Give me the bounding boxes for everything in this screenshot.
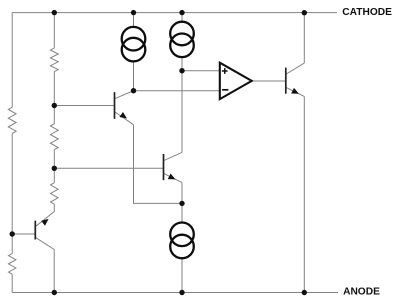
node non-inverting input junction bbox=[179, 68, 184, 73]
transistor Q1 emitter arrow bbox=[41, 219, 48, 226]
svg-text:ANODE: ANODE bbox=[343, 287, 380, 298]
wire current source I3 top stub bbox=[181, 203, 183, 222]
wire current source I2 top stub bbox=[181, 13, 183, 22]
wire left column upper bbox=[11, 13, 13, 108]
node top rail x304 bbox=[302, 10, 307, 15]
wire x54 column mid1 bbox=[53, 72, 55, 124]
transistor Q4 collector diagonal bbox=[286, 63, 304, 74]
node Q2 base junction bbox=[52, 103, 57, 108]
node top rail x133 bbox=[131, 10, 136, 15]
current source I3 bbox=[170, 223, 194, 247]
wire Q4 collector to top rail bbox=[303, 13, 305, 63]
node bottom rail x182 bbox=[179, 290, 184, 295]
wire x54 to Q1 emitter bbox=[53, 204, 55, 211]
wire x54 column mid2 bbox=[53, 150, 55, 183]
wire top rail (cathode bus) bbox=[12, 12, 337, 14]
transistor Q4 emitter diagonal bbox=[286, 88, 304, 97]
wire Q2 emitter run bbox=[134, 125, 183, 204]
current source I2 bbox=[170, 22, 194, 46]
resistor R1 bbox=[8, 107, 16, 133]
transistor Q3 base bar bbox=[163, 154, 165, 180]
wire left column lower bbox=[11, 274, 13, 292]
node bottom rail x54 bbox=[52, 290, 57, 295]
wire current source I2 bottom to node bbox=[181, 57, 183, 71]
transistor Q2 emitter diagonal bbox=[115, 112, 134, 125]
resistor R3 bbox=[50, 124, 58, 150]
transistor Q1 collector diagonal bbox=[36, 238, 54, 250]
transistor Q1 base bar bbox=[34, 221, 36, 240]
wire node to Q3 collector bbox=[181, 71, 183, 153]
wire x54 column top bbox=[53, 13, 55, 49]
op-amp U1 bbox=[220, 63, 252, 99]
wire Q3 base bbox=[54, 167, 163, 169]
wire current source I3 bottom stub bbox=[181, 258, 183, 292]
node bottom rail x304 bbox=[302, 290, 307, 295]
wire current source I1 bottom to node bbox=[133, 61, 135, 90]
svg-text:CATHODE: CATHODE bbox=[342, 7, 392, 18]
resistor R4 bbox=[51, 183, 59, 205]
transistor Q2 emitter arrow bbox=[119, 112, 127, 119]
current source I1 bbox=[122, 27, 146, 51]
wire op-amp inverting input bbox=[134, 90, 220, 92]
node Q3 base junction bbox=[52, 166, 57, 171]
wire Q2 base bbox=[54, 105, 114, 107]
wire op-amp non-inverting input bbox=[182, 70, 220, 72]
node top rail x54 bbox=[52, 10, 57, 15]
resistor R2 bbox=[50, 48, 58, 72]
wire Q4 emitter to bottom rail bbox=[303, 96, 305, 292]
wire bottom rail (anode bus) bbox=[12, 292, 338, 294]
transistor Q2 base bar bbox=[114, 92, 116, 119]
transistor Q2 collector diagonal bbox=[115, 91, 134, 99]
transistor Q3 emitter diagonal bbox=[164, 174, 182, 183]
node Q1 base junction bbox=[10, 231, 15, 236]
node top rail x182 bbox=[179, 10, 184, 15]
wire Q1 collector to bottom rail bbox=[53, 250, 55, 293]
node emitter/current-source junction bbox=[179, 201, 184, 206]
resistor R5 bbox=[9, 254, 16, 275]
wire current source I1 top stub bbox=[133, 13, 135, 27]
wire Q1 base bbox=[12, 233, 35, 235]
transistor Q3 emitter arrow bbox=[168, 174, 176, 180]
node inverting input junction bbox=[131, 88, 136, 93]
transistor Q4 emitter arrow bbox=[291, 88, 299, 94]
transistor Q1 emitter diagonal bbox=[36, 212, 54, 227]
wire op-amp output to Q4 base bbox=[252, 80, 286, 82]
transistor Q4 base bar bbox=[285, 68, 287, 94]
transistor Q3 collector diagonal bbox=[164, 152, 182, 160]
wire Q3 emitter to node bbox=[181, 183, 183, 204]
wire left column middle bbox=[11, 133, 13, 253]
